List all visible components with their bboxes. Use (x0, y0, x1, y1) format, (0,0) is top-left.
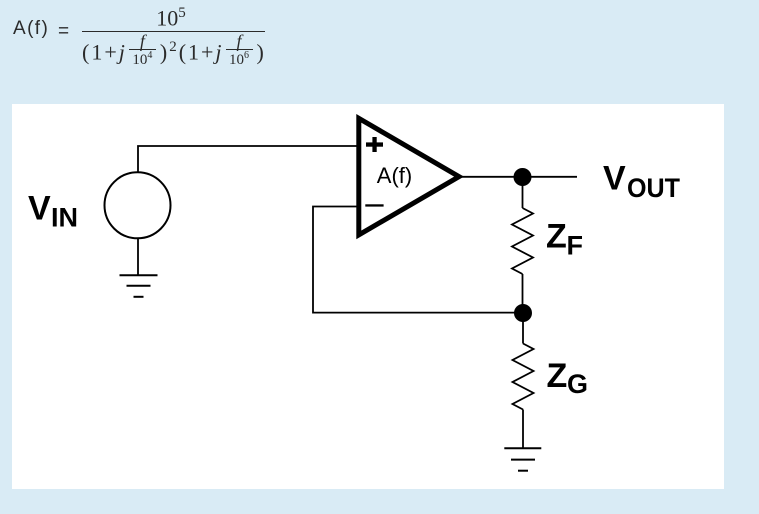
svg-text:Z: Z (547, 357, 568, 395)
label ZG (547, 357, 589, 399)
svg-text:V: V (28, 190, 51, 228)
wire: feedback from - input around to node N2 (313, 207, 523, 313)
transfer-function formula A(f) (0, 0, 1, 1)
resistor ZF (512, 208, 533, 274)
svg-text:G: G (567, 369, 588, 399)
ground (below ZG) (504, 448, 541, 471)
label VIN (28, 190, 78, 233)
wire: op-amp output to VOUT (459, 176, 577, 178)
white schematic panel (12, 104, 724, 489)
svg-text:V: V (603, 160, 626, 198)
wire: node N2 down to ZG (522, 313, 524, 344)
svg-text:Z: Z (546, 218, 567, 256)
op-amp - input marker (365, 204, 383, 206)
wire: ZG bottom to ground (522, 410, 524, 449)
voltage source VIN (105, 172, 171, 238)
ground (below VIN source) (120, 275, 158, 297)
op-amp A(f) (359, 118, 459, 235)
svg-text:IN: IN (51, 202, 78, 232)
op-amp + input marker (366, 137, 383, 152)
wire: node N1 down to ZF (522, 177, 524, 208)
wire: VIN source bottom to ground (137, 238, 139, 275)
wire: VIN source top to op-amp + input (138, 146, 361, 173)
svg-text:F: F (567, 231, 584, 261)
label ZF (546, 218, 583, 261)
svg-text:A(f): A(f) (377, 163, 412, 188)
svg-text:OUT: OUT (627, 173, 680, 203)
resistor ZG (513, 344, 534, 410)
node N2 (feedback node) (514, 304, 532, 322)
label VOUT (603, 160, 680, 203)
node N1 (output node) (514, 168, 532, 186)
wire: ZF bottom to node N2 (522, 274, 524, 313)
